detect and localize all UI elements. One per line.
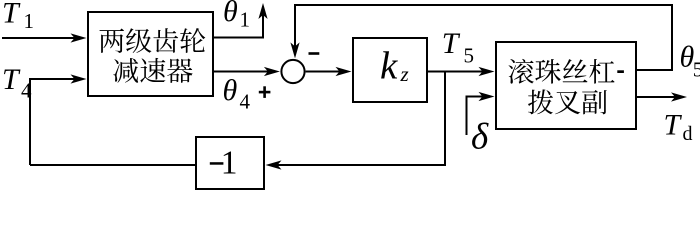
label 拨叉副 (line 2) — [528, 89, 607, 114]
wire: theta4 into summing junction — [214, 67, 280, 76]
svg-text:T: T — [2, 0, 21, 30]
svg-text:δ: δ — [471, 117, 489, 158]
svg-text:1: 1 — [240, 8, 251, 32]
svg-text:T: T — [442, 27, 461, 60]
summing junction circle — [281, 60, 304, 83]
svg-text:1: 1 — [24, 9, 35, 33]
svg-text:4: 4 — [21, 79, 32, 103]
label -1 inside feedback block — [210, 144, 238, 181]
block: kz gain — [353, 38, 427, 102]
svg-text:T: T — [664, 109, 683, 142]
minus sign at summing junction — [309, 52, 320, 55]
label 滚珠丝杠- (line 1) — [508, 59, 623, 84]
svg-text:5: 5 — [693, 58, 700, 82]
svg-text:4: 4 — [240, 90, 251, 114]
svg-text:θ: θ — [223, 0, 238, 28]
svg-text:T: T — [2, 63, 21, 96]
wire: summing junction to kz — [306, 67, 352, 76]
wire: delta input into ball screw block — [467, 92, 495, 135]
label Td — [664, 109, 693, 146]
svg-text:k: k — [380, 45, 398, 88]
svg-text:z: z — [400, 62, 409, 86]
label T1 — [2, 0, 34, 33]
block: two-stage gear reducer 两级齿轮减速器 — [88, 12, 213, 96]
svg-text:1: 1 — [221, 144, 238, 181]
plus sign at summing junction — [259, 86, 271, 98]
wire: kz output T5 to ball screw block — [428, 67, 495, 76]
label T5 — [442, 27, 474, 67]
wire: theta1 output with up arrow — [214, 3, 268, 38]
svg-text:5: 5 — [464, 44, 475, 68]
wire: -1 output back to T4 corner — [30, 164, 195, 166]
wire: theta5 feedback loop to summing junction — [290, 5, 672, 70]
label 减速器 (line 2) — [113, 58, 192, 83]
label theta4 — [223, 74, 251, 114]
label theta1 — [223, 0, 250, 32]
label 两级齿轮 (line 1) — [99, 28, 205, 53]
block: -1 feedback gain — [196, 137, 264, 189]
wire: T4 input (from -1 feedback) into gear reducer — [30, 74, 87, 165]
wire: Td output arrow — [637, 92, 687, 101]
svg-text:θ: θ — [223, 74, 238, 107]
svg-text:d: d — [683, 123, 693, 145]
label T4 — [2, 63, 32, 103]
wire: T1 input into gear reducer — [2, 33, 87, 42]
wire: T5 branch down to -1 block — [266, 72, 446, 170]
block: ball screw fork 滚珠丝杠-拨叉副 — [496, 42, 636, 129]
label theta5 — [680, 40, 700, 81]
label kz — [380, 45, 409, 88]
